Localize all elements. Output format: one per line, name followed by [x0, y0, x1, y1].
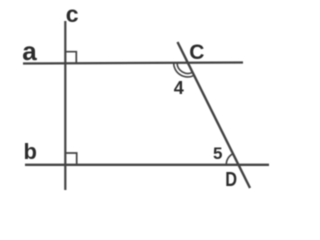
svg-text:D: D — [225, 168, 237, 191]
svg-text:C: C — [189, 41, 204, 64]
svg-text:4: 4 — [174, 78, 184, 98]
svg-text:b: b — [24, 139, 37, 164]
angle 5 arc at D — [226, 154, 233, 165]
svg-text:c: c — [66, 1, 79, 27]
angle 4 double arc at C — [174, 63, 195, 77]
transversal line CD — [178, 42, 251, 188]
svg-text:a: a — [22, 36, 37, 66]
line a (upper parallel line) — [23, 63, 243, 64]
svg-text:5: 5 — [213, 144, 222, 163]
right-angle mark at intersection of c and b — [66, 153, 77, 165]
line c (vertical transversal) — [64, 21, 66, 190]
right-angle mark at intersection of c and a — [66, 52, 77, 64]
line b (lower parallel line) — [25, 164, 269, 166]
